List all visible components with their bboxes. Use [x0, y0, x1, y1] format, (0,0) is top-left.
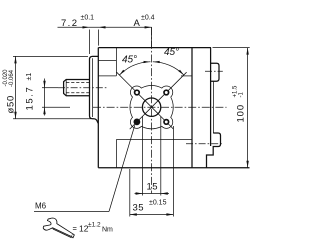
bolt hole top-right (M6): [164, 90, 169, 95]
wrench icon: [43, 218, 74, 238]
diagonal centerline bottom-left: [130, 114, 146, 130]
arrow 15 right: [161, 192, 168, 194]
inner line bottom horizontal: [116, 139, 192, 141]
svg-text:A: A: [134, 18, 141, 29]
flange 4-lobe outline: [130, 86, 173, 129]
svg-text:=: =: [73, 224, 78, 233]
ext line y56.4: [13, 55, 88, 57]
svg-text:45°: 45°: [164, 47, 179, 58]
svg-text:-0.064: -0.064: [9, 69, 15, 87]
bolt hole bottom-left (M6, filled): [134, 119, 141, 126]
svg-text:Nm: Nm: [102, 227, 113, 234]
pilot boss ø50 (edge view): [90, 56, 99, 123]
inner line top-left horizontal b: [98, 75, 116, 77]
arrow 15.7 bottom: [43, 107, 45, 114]
inner line top-left vertical: [115, 48, 117, 76]
ext line y118.7: [13, 118, 91, 120]
shaft circle X diagonal 1: [145, 101, 158, 114]
dim line 35: [130, 214, 174, 216]
shaft thread dashed line lower: [66, 92, 89, 94]
svg-text:-1: -1: [239, 92, 245, 98]
inner line top-right horizontal: [181, 75, 192, 77]
inner line top-left horizontal a: [98, 60, 116, 62]
rear cover right edge: [210, 48, 212, 146]
ext line y47.6 right: [213, 47, 250, 49]
shaft circle ø15: [142, 98, 160, 116]
svg-text:±0.4: ±0.4: [141, 15, 155, 22]
svg-text:35: 35: [133, 203, 145, 214]
45-deg arrow left-low: [119, 70, 124, 75]
upper port centerline: [205, 70, 223, 72]
svg-text:100: 100: [236, 104, 247, 123]
dim line 100: [247, 48, 249, 168]
inner line bottom-left vertical: [115, 140, 117, 168]
arrow 100 bottom: [246, 161, 248, 168]
arrow ø50 top: [14, 56, 16, 63]
svg-text:±1: ±1: [26, 73, 33, 81]
arrow ø50 bottom: [14, 112, 16, 119]
svg-text:ø50: ø50: [6, 95, 17, 113]
vertical centerline: [151, 27, 153, 193]
dim line 7.2 and A: [58, 26, 152, 28]
dim line ø50: [15, 56, 17, 118]
svg-text:7.2: 7.2: [61, 18, 78, 29]
svg-text:15.7: 15.7: [25, 86, 36, 111]
shaft outline: [64, 80, 90, 96]
shaft circle X diagonal 2: [145, 101, 158, 114]
lower port centerline: [186, 143, 223, 145]
shaft end face line: [65, 80, 67, 96]
bolt hole top-left (M6): [135, 90, 140, 95]
ext line x160.8: [160, 117, 162, 196]
lower port boss: [207, 133, 221, 168]
svg-text:45°: 45°: [122, 55, 137, 66]
ext line x129.8: [129, 169, 131, 217]
shaft axis centerline: [58, 87, 108, 89]
ext line y87.7: [42, 87, 58, 89]
bolt hole bottom-right (M6): [164, 120, 169, 125]
svg-text:±1.2: ±1.2: [88, 222, 101, 229]
arrow 7.2 left: [83, 26, 90, 28]
svg-text:±0.1: ±0.1: [81, 15, 95, 22]
diagonal centerline top-left: [117, 72, 146, 101]
45-deg dim arc right: [153, 62, 184, 75]
svg-text:M6: M6: [35, 202, 47, 211]
ext line x173.4: [172, 126, 174, 217]
ext line y107.2: [42, 106, 70, 108]
ext line x142.6: [142, 117, 144, 196]
vertical centerline solid top segment: [151, 27, 153, 47]
arrow 15 left: [136, 192, 143, 194]
arrow 100 top: [246, 48, 248, 55]
dim line 15: [135, 193, 170, 195]
leader underline: [34, 211, 109, 213]
svg-text:±0.15: ±0.15: [149, 200, 167, 207]
body/rear cover divider: [191, 48, 193, 168]
pilot boss chamfer line: [92, 58, 94, 117]
pump body outline (side view): [98, 48, 249, 168]
horizontal centerline: [93, 106, 227, 108]
arrow A right: [145, 26, 152, 28]
shaft thread dashed line upper: [66, 82, 89, 84]
upper port boss: [211, 63, 219, 81]
45-deg arrow right-low: [178, 70, 183, 75]
diagonal centerline bottom-right: [158, 114, 174, 130]
ext line x98.5: [98, 30, 100, 46]
arrow 15.7 top: [43, 81, 45, 88]
45-deg arrow left-top: [144, 61, 151, 63]
dim line 15.7: [44, 79, 46, 116]
arrow 35 left: [130, 213, 137, 215]
leader line from M6 hole: [109, 125, 135, 211]
rear cover inner line between ports: [212, 81, 214, 133]
arrow 35 right: [166, 213, 173, 215]
45-deg dim arc left: [119, 62, 150, 75]
diagonal centerline top-right: [158, 72, 187, 101]
svg-text:15: 15: [147, 182, 159, 193]
arrow at 98.5 pointing left: [99, 26, 106, 28]
ext line x89.5: [89, 30, 91, 55]
45-deg arrow right-top: [153, 61, 160, 63]
